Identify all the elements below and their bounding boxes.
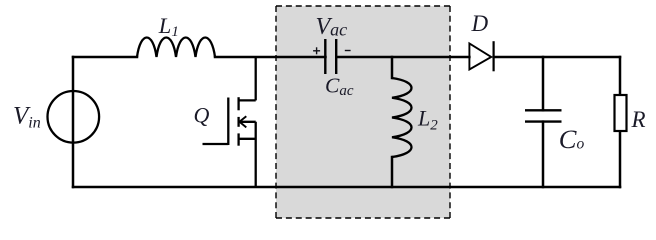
svg-text:Co: Co <box>559 124 585 154</box>
svg-text:R: R <box>631 107 646 132</box>
svg-text:D: D <box>471 11 489 36</box>
svg-text:Q: Q <box>194 103 210 128</box>
svg-text:L1: L1 <box>158 13 179 40</box>
svg-text:Vin: Vin <box>13 103 41 132</box>
